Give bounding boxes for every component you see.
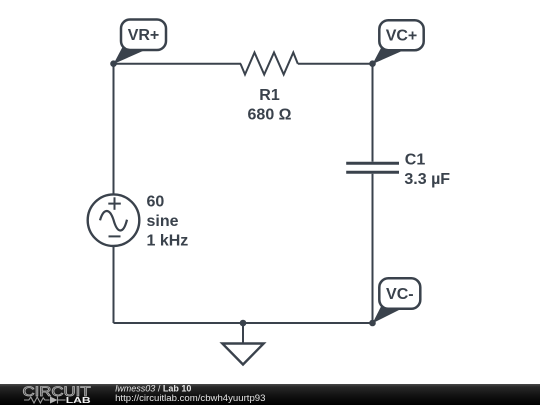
node VR+ flag tail [114,47,145,64]
svg-text:R1: R1 [259,87,280,104]
wire right lower (C1 to VC- node) [372,174,374,323]
node VC- flag [379,278,420,309]
wire bottom rail [114,322,373,324]
svg-text:http://circuitlab.com/cbwh4yuu: http://circuitlab.com/cbwh4yuurtp93 [115,393,265,404]
svg-text:C1: C1 [405,152,426,169]
svg-text:60: 60 [147,193,165,210]
wire top-right (R1 to VC+ node) [298,63,373,65]
svg-text:sine: sine [147,213,179,230]
voltage source V1 [88,194,140,246]
svg-text:lwmess03 / Lab 10: lwmess03 / Lab 10 [115,384,191,394]
wire left lower (V1 to bottom rail) [113,246,115,323]
wire top-left (VR+ node to R1) [114,63,242,65]
wire ground stub [242,323,244,344]
ground [222,344,263,365]
capacitor C1 [346,163,399,172]
voltage source V1 value labels [147,193,189,249]
svg-text:VR+: VR+ [128,27,160,44]
svg-text:680 Ω: 680 Ω [248,107,292,124]
svg-text:VC+: VC+ [386,28,418,45]
svg-text:1 kHz: 1 kHz [147,233,189,250]
wire right upper (VC+ node to C1) [372,64,374,162]
node VC+ flag tail [373,48,403,64]
junction ground rail dot [240,320,247,327]
svg-text:3.3 µF: 3.3 µF [404,171,450,188]
svg-text:VC-: VC- [386,286,414,303]
node VR+ flag [121,20,166,51]
node VC- flag tail [373,307,400,324]
junction VC+ node dot [369,60,376,67]
node VC+ flag [379,20,423,50]
wire left upper (VR+ node down to V1) [113,64,115,195]
junction VR+ node dot [110,60,117,67]
svg-text:LAB: LAB [66,396,92,405]
resistor R1 [241,53,298,75]
footer logo resistor-diode glyph [24,397,66,404]
junction VC- node dot [369,320,376,327]
